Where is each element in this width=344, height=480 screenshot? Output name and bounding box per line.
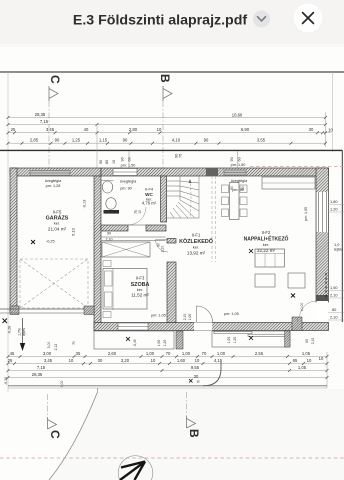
svg-text:10,60: 10,60 — [232, 113, 243, 118]
svg-text:üvegtégla: üvegtégla — [45, 179, 62, 183]
svg-text:1,00: 1,00 — [146, 351, 155, 356]
svg-text:60: 60 — [238, 157, 242, 161]
svg-text:B: B — [187, 429, 201, 438]
svg-text:pm: 1,50: pm: 1,50 — [231, 163, 246, 167]
svg-text:10: 10 — [319, 356, 324, 361]
svg-text:3,45: 3,45 — [46, 127, 55, 132]
svg-text:pm: 1,50: pm: 1,50 — [121, 164, 136, 168]
svg-text:4,10: 4,10 — [172, 138, 181, 143]
svg-text:10: 10 — [157, 127, 162, 132]
svg-text:C: C — [48, 75, 62, 84]
svg-text:1,50: 1,50 — [330, 285, 338, 290]
svg-text:10: 10 — [69, 358, 74, 363]
svg-text:1,00: 1,00 — [157, 340, 161, 347]
svg-text:II-F2: II-F2 — [262, 230, 271, 235]
svg-text:90: 90 — [230, 157, 234, 161]
svg-text:3,00: 3,00 — [47, 342, 51, 349]
svg-text:3,00: 3,00 — [43, 351, 52, 356]
svg-text:1,00: 1,00 — [217, 351, 226, 356]
svg-text:30: 30 — [309, 127, 314, 132]
svg-text:-0,13: -0,13 — [83, 200, 87, 209]
svg-text:30: 30 — [98, 358, 103, 363]
svg-text:2,60: 2,60 — [108, 351, 117, 356]
svg-text:±0,00: ±0,00 — [300, 303, 304, 312]
svg-text:pm: 1,05: pm: 1,05 — [151, 314, 166, 318]
svg-text:ker.: ker. — [193, 245, 199, 250]
svg-text:2,85: 2,85 — [30, 138, 39, 143]
svg-text:WC: WC — [145, 192, 153, 197]
svg-text:1,25: 1,25 — [72, 138, 81, 143]
svg-text:pm: 1,28: pm: 1,28 — [46, 184, 61, 188]
svg-text:45: 45 — [10, 351, 15, 356]
svg-text:II-F3: II-F3 — [136, 276, 145, 281]
svg-text:9,55: 9,55 — [191, 365, 200, 370]
svg-text:90: 90 — [230, 186, 234, 190]
svg-text:R: R — [197, 380, 200, 384]
svg-text:2,55: 2,55 — [255, 351, 264, 356]
svg-text:1,20: 1,20 — [233, 337, 237, 344]
svg-text:40: 40 — [84, 127, 89, 132]
svg-text:B: B — [158, 74, 172, 83]
svg-text:ker.: ker. — [54, 221, 60, 226]
svg-text:2,10: 2,10 — [183, 314, 187, 321]
svg-text:3,55: 3,55 — [257, 138, 266, 143]
svg-text:1,00: 1,00 — [182, 351, 191, 356]
svg-text:10: 10 — [328, 128, 333, 133]
svg-text:2,10: 2,10 — [330, 315, 338, 320]
svg-text:21,04 m²: 21,04 m² — [48, 227, 67, 232]
svg-text:7,15: 7,15 — [37, 365, 46, 370]
svg-text:1,7%: 1,7% — [18, 328, 22, 336]
svg-text:pm: 90: pm: 90 — [120, 187, 132, 191]
svg-text:7,15: 7,15 — [40, 119, 49, 124]
svg-text:90: 90 — [123, 138, 128, 143]
svg-text:10: 10 — [112, 160, 116, 164]
svg-text:6,90: 6,90 — [241, 127, 250, 132]
svg-text:11,52 m²: 11,52 m² — [131, 293, 149, 298]
svg-text:-0,25: -0,25 — [46, 240, 55, 244]
svg-text:60: 60 — [128, 157, 132, 161]
svg-text:1,05: 1,05 — [302, 351, 311, 356]
svg-text:90: 90 — [204, 138, 209, 143]
svg-text:2,10: 2,10 — [106, 238, 113, 242]
svg-text:2,12: 2,12 — [54, 344, 58, 351]
svg-text:70: 70 — [166, 351, 171, 356]
svg-text:70: 70 — [202, 351, 207, 356]
svg-text:pm: 1,05: pm: 1,05 — [304, 207, 308, 221]
svg-text:1,05: 1,05 — [298, 365, 307, 370]
svg-text:pm: 1,05: pm: 1,05 — [224, 312, 239, 316]
svg-text:90: 90 — [99, 160, 103, 164]
svg-text:10: 10 — [138, 210, 142, 214]
svg-text:70: 70 — [72, 341, 76, 345]
svg-text:75: 75 — [179, 154, 183, 158]
svg-text:1,20: 1,20 — [330, 207, 338, 212]
svg-text:1,15: 1,15 — [99, 138, 108, 143]
svg-text:90: 90 — [121, 157, 125, 161]
svg-text:3,00: 3,00 — [60, 381, 64, 388]
svg-text:1,60: 1,60 — [177, 358, 186, 363]
svg-text:3,45: 3,45 — [44, 358, 53, 363]
svg-text:üvegtégla: üvegtégla — [120, 180, 137, 184]
svg-text:1,20: 1,20 — [163, 340, 167, 347]
svg-text:C: C — [48, 430, 62, 439]
svg-text:25: 25 — [8, 358, 13, 363]
svg-text:2,10: 2,10 — [161, 246, 165, 253]
svg-text:-0,45: -0,45 — [133, 339, 137, 346]
svg-text:2,10: 2,10 — [311, 338, 315, 345]
svg-text:E.3 Földszinti alaprajz.pdf: E.3 Földszinti alaprajz.pdf — [73, 13, 247, 29]
svg-text:25: 25 — [11, 127, 16, 132]
svg-text:II-F4: II-F4 — [145, 187, 154, 192]
svg-text:ker.: ker. — [137, 287, 143, 292]
svg-text:35: 35 — [76, 351, 81, 356]
svg-text:2,80: 2,80 — [129, 127, 138, 132]
svg-text:1,80: 1,80 — [330, 199, 338, 204]
svg-text:4,76 m²: 4,76 m² — [142, 201, 157, 206]
svg-text:-0,28: -0,28 — [8, 326, 12, 334]
svg-text:28,35: 28,35 — [35, 112, 46, 117]
svg-text:II-F5: II-F5 — [53, 210, 62, 215]
svg-text:10: 10 — [307, 358, 312, 363]
svg-text:II-F1: II-F1 — [192, 233, 201, 238]
svg-text:2,10: 2,10 — [330, 293, 338, 298]
svg-text:80: 80 — [305, 339, 309, 343]
svg-text:6,10: 6,10 — [71, 227, 76, 236]
svg-text:60: 60 — [241, 186, 245, 190]
svg-text:-0,30: -0,30 — [4, 377, 8, 385]
svg-text:10: 10 — [151, 358, 156, 363]
svg-text:65: 65 — [293, 358, 298, 363]
svg-text:10: 10 — [195, 358, 200, 363]
svg-text:30: 30 — [194, 374, 199, 379]
svg-text:1,00: 1,00 — [227, 337, 231, 344]
svg-text:3,20: 3,20 — [121, 358, 130, 363]
svg-text:ker.: ker. — [263, 242, 269, 247]
svg-text:13,92 m²: 13,92 m² — [187, 251, 206, 256]
svg-text:lejtés: lejtés — [334, 247, 343, 252]
svg-text:1,00: 1,00 — [188, 314, 192, 321]
svg-text:60: 60 — [105, 160, 109, 164]
svg-text:90: 90 — [107, 232, 111, 236]
svg-text:90: 90 — [55, 138, 60, 143]
svg-text:28,35: 28,35 — [32, 372, 43, 377]
